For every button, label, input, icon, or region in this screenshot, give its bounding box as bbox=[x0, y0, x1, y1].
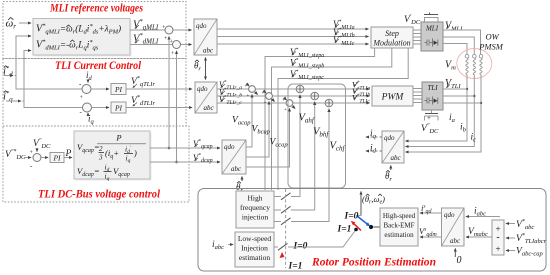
transform block C qdo/abc bbox=[222, 140, 246, 174]
wire i*q tap into eq box bbox=[24, 51, 31, 102]
diagonal summers on phase lines bbox=[245, 84, 296, 114]
svg-text:Back-EMF: Back-EMF bbox=[383, 222, 414, 230]
svg-text:+: + bbox=[284, 108, 287, 113]
qcap dcap output lines to block C bbox=[150, 147, 220, 149]
svg-text:+: + bbox=[282, 99, 285, 104]
wire omega to eq box bbox=[19, 22, 31, 24]
iq id outputs dashed bbox=[366, 136, 382, 138]
coil a bbox=[465, 54, 469, 58]
label callout arrows bbox=[133, 24, 450, 161]
coil b bbox=[473, 54, 477, 58]
inputs to pmp box bbox=[506, 223, 515, 225]
E inputs bbox=[466, 216, 500, 218]
svg-text:abc: abc bbox=[203, 47, 214, 55]
capacitor below TLI bbox=[431, 110, 433, 114]
dashed box TLI DC-Bus voltage control bbox=[3, 126, 189, 202]
summer A1 bbox=[165, 26, 173, 34]
PI2 output to block B bbox=[126, 107, 192, 109]
gate lines PWM to TLI bbox=[413, 89, 422, 103]
svg-text:3: 3 bbox=[98, 154, 103, 162]
svg-text:abc: abc bbox=[391, 154, 402, 162]
svg-text:TLI Current Control: TLI Current Control bbox=[55, 58, 142, 72]
coil bottoms down to TLI lines and current sense to block D bbox=[406, 75, 468, 142]
svg-text:P: P bbox=[65, 149, 72, 159]
svg-text:High-speed: High-speed bbox=[383, 212, 416, 220]
hf voltage risers bbox=[291, 95, 300, 197]
summer S3 DC-bus bbox=[33, 154, 41, 162]
svg-text:0: 0 bbox=[457, 255, 462, 266]
svg-text:+: + bbox=[427, 114, 431, 122]
PI1 output to block B bbox=[126, 88, 192, 90]
svg-text:abc: abc bbox=[231, 165, 242, 173]
svg-text:abc: abc bbox=[450, 237, 461, 245]
transform block E qdo/abc (bottom) bbox=[442, 208, 465, 246]
B outputs phase lines bbox=[217, 88, 370, 90]
svg-text:P: P bbox=[115, 133, 121, 143]
wire A1 to block A bbox=[173, 29, 192, 31]
svg-text:I=1: I=1 bbox=[288, 262, 303, 272]
svg-text:+: + bbox=[264, 101, 267, 106]
TLI converter block bbox=[422, 82, 443, 110]
svg-text:MLI reference voltages: MLI reference voltages bbox=[49, 1, 143, 15]
c2 to PI2 bbox=[92, 107, 110, 109]
svg-text:I=1: I=1 bbox=[337, 225, 352, 235]
svg-text:Injection: Injection bbox=[241, 244, 268, 253]
svg-text:abc: abc bbox=[204, 104, 215, 112]
wire dcap feedback up to A2 bbox=[176, 51, 178, 162]
summer c2 bbox=[83, 103, 92, 112]
svg-text:I=0: I=0 bbox=[344, 212, 359, 222]
svg-text:frequency: frequency bbox=[240, 203, 270, 212]
svg-text:Modulation: Modulation bbox=[372, 39, 410, 48]
PI box 2 bbox=[111, 102, 126, 113]
plus minus plus box bbox=[492, 220, 504, 255]
svg-text:qdo: qdo bbox=[444, 211, 455, 219]
wire qcap feedback up to A1 bbox=[168, 37, 170, 149]
svg-text:+: + bbox=[262, 92, 265, 97]
wires A outputs to Step Modulation bbox=[217, 28, 369, 30]
svg-text:+: + bbox=[247, 94, 250, 99]
svg-text:OW: OW bbox=[486, 32, 500, 42]
svg-text:PI: PI bbox=[114, 85, 123, 94]
summer A2 bbox=[173, 41, 181, 49]
hf outputs with switches bbox=[274, 196, 281, 198]
capacitor above MLI bbox=[424, 13, 438, 15]
wire A2 to block A bbox=[181, 44, 192, 46]
E outputs to Back-EMF bbox=[420, 212, 442, 214]
coil c bbox=[479, 54, 483, 58]
wire eq out d bbox=[130, 44, 173, 46]
theta omega output arrow bbox=[360, 192, 362, 216]
transform block A qdo/abc bbox=[194, 19, 217, 55]
svg-text:+: + bbox=[495, 244, 500, 254]
svg-text:qdo: qdo bbox=[197, 85, 208, 93]
svg-text:qdo: qdo bbox=[384, 134, 395, 142]
rounded box around hf summers bbox=[288, 84, 346, 188]
plus summers for hf injection bbox=[296, 85, 333, 107]
svg-text:PMSM: PMSM bbox=[478, 42, 504, 52]
PI box 1 bbox=[111, 84, 126, 95]
svg-text:): ) bbox=[133, 148, 137, 158]
svg-text:Rotor Position Estimation: Rotor Position Estimation bbox=[311, 255, 436, 269]
svg-text:PI: PI bbox=[114, 104, 123, 113]
svg-text:2: 2 bbox=[99, 145, 103, 153]
High frequency injection block bbox=[236, 191, 274, 228]
gate lines Step to MLI bbox=[413, 30, 421, 44]
transform block B qdo/abc bbox=[195, 82, 217, 113]
svg-text:Low-speed: Low-speed bbox=[238, 234, 272, 243]
svg-text:Step: Step bbox=[385, 29, 399, 38]
wire eq out q bbox=[130, 29, 165, 31]
summer c1 bbox=[82, 85, 91, 94]
step modulation feedback drops bbox=[265, 48, 375, 190]
hat accents bbox=[4, 18, 390, 196]
TLI output lines bbox=[443, 88, 467, 90]
svg-text:MLI: MLI bbox=[425, 25, 439, 33]
MLI converter block bbox=[421, 22, 443, 51]
svg-text:TLI: TLI bbox=[427, 84, 438, 92]
svg-text:PI: PI bbox=[52, 154, 61, 163]
svg-text:+: + bbox=[245, 85, 248, 90]
svg-text:estimation: estimation bbox=[239, 253, 270, 262]
OW PMSM motor bbox=[457, 32, 504, 79]
dashed box TLI Current Control bbox=[3, 59, 186, 127]
svg-text:TLI DC-Bus voltage control: TLI DC-Bus voltage control bbox=[38, 189, 161, 201]
PI box 3 bbox=[50, 153, 64, 163]
svg-text:qdo: qdo bbox=[224, 143, 235, 151]
svg-text:qdo: qdo bbox=[196, 22, 207, 30]
svg-text:-: - bbox=[496, 232, 499, 243]
equation box DC-bus bbox=[76, 133, 152, 181]
Low-speed Injection estimation block bbox=[235, 232, 274, 267]
wire i*d tap into eq box bbox=[16, 36, 31, 76]
svg-text:High: High bbox=[248, 194, 263, 203]
Rotor Position Estimation rounded box bbox=[198, 189, 546, 272]
dashed mode line bbox=[285, 189, 287, 268]
svg-text:PWM: PWM bbox=[381, 93, 405, 103]
High-speed Back-EMF estimation block bbox=[380, 208, 418, 246]
rotor switch bbox=[288, 231, 355, 248]
equation box MLI bbox=[35, 20, 132, 57]
cap voltage risers to diagonal summers bbox=[246, 95, 252, 148]
low speed output and switch bbox=[274, 246, 278, 248]
transform block D qdo/abc (current feedback) bbox=[382, 131, 404, 163]
c1 to PI1 bbox=[91, 88, 109, 90]
PWM block bbox=[372, 86, 413, 106]
Step Modulation block bbox=[371, 27, 413, 48]
svg-text:estimation: estimation bbox=[384, 231, 414, 239]
dashed box MLI reference voltages bbox=[3, 2, 186, 59]
svg-text:injection: injection bbox=[242, 213, 268, 222]
junction dots coil-TLI connections bbox=[466, 88, 468, 90]
sum to PI3 bbox=[41, 157, 48, 159]
